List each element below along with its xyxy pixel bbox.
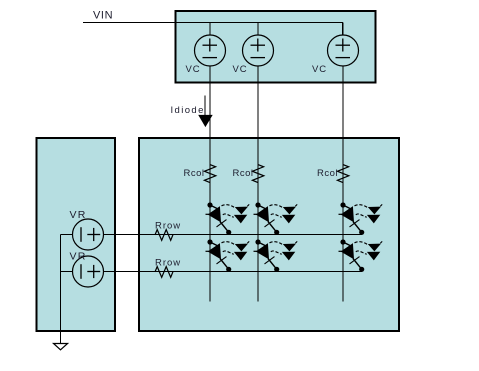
wire: VIN to VC2 top xyxy=(257,23,259,36)
resistor Rrow2 xyxy=(155,267,173,278)
source VR2 xyxy=(73,256,104,287)
wire: column 2 xyxy=(257,66,259,302)
annotation arrow Idiode xyxy=(198,96,213,128)
wire: VR2 left lead xyxy=(60,271,72,273)
LED D13 xyxy=(339,202,383,235)
svg-text:Rrow: Rrow xyxy=(155,258,181,269)
wire: VIN corner to VC3 top xyxy=(342,23,344,36)
wire: row 2 xyxy=(104,271,363,273)
wire: VIN net xyxy=(83,22,343,24)
wire: column 3 xyxy=(342,66,344,302)
wire: VR1 left lead xyxy=(60,234,72,236)
wire: VIN to VC1 top xyxy=(209,23,211,36)
block: column current-source box (top) xyxy=(176,11,376,83)
source VC3 xyxy=(328,35,359,66)
svg-text:Rrow: Rrow xyxy=(155,221,181,232)
LED D12 xyxy=(254,202,298,235)
source VR1 xyxy=(73,219,104,250)
LED D23 xyxy=(339,239,383,272)
LED D11 xyxy=(206,202,250,235)
block: LED matrix box (main) xyxy=(139,138,399,331)
LED D22 xyxy=(254,239,298,272)
svg-text:VR: VR xyxy=(70,251,87,263)
wire: ground bus xyxy=(59,235,61,344)
source VC1 xyxy=(195,35,226,66)
resistor Rcol1 xyxy=(204,165,215,183)
ground xyxy=(54,344,68,350)
svg-text:Rcol: Rcol xyxy=(184,168,205,179)
resistor Rcol2 xyxy=(252,165,263,183)
svg-text:VC: VC xyxy=(186,64,201,75)
wire: column 1 xyxy=(209,66,211,302)
wire: row 1 xyxy=(104,234,363,236)
svg-text:Rcol: Rcol xyxy=(233,168,254,179)
svg-text:VR: VR xyxy=(70,209,87,221)
LED D21 xyxy=(206,239,250,272)
svg-text:VIN: VIN xyxy=(93,10,113,22)
svg-text:VC: VC xyxy=(312,64,327,75)
block: row driver box (left) xyxy=(37,138,116,331)
resistor Rcol3 xyxy=(337,165,348,183)
svg-text:Idiode: Idiode xyxy=(171,105,205,116)
resistor Rrow1 xyxy=(155,230,173,241)
svg-text:VC: VC xyxy=(233,64,248,75)
source VC2 xyxy=(243,35,274,66)
svg-text:Rcol: Rcol xyxy=(317,168,338,179)
